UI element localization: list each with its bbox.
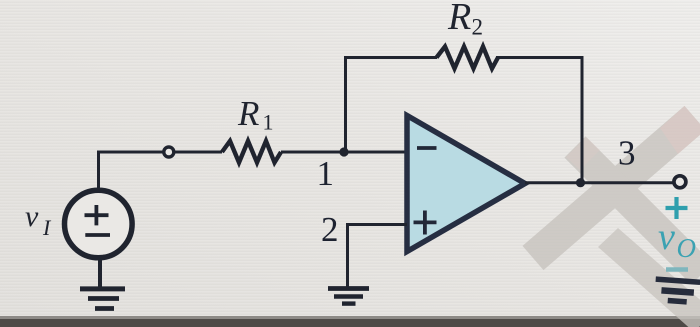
input terminal (open circle) xyxy=(164,147,174,157)
ground at source xyxy=(80,289,125,309)
wire node 1 up to feedback xyxy=(346,58,438,153)
node 1 junction dot xyxy=(339,147,348,156)
svg-text:I: I xyxy=(42,215,52,240)
wire noninverting input xyxy=(348,225,408,288)
label R1 xyxy=(237,94,274,135)
svg-text:2: 2 xyxy=(472,15,484,40)
decorative photo artifacts drawn first (unlabeled) xyxy=(0,316,700,320)
svg-text:v: v xyxy=(658,216,675,258)
svg-text:R: R xyxy=(447,0,471,38)
ground at op-amp input xyxy=(328,289,369,304)
output junction dot xyxy=(576,178,585,187)
wire R1 to node 1 xyxy=(281,151,407,154)
wire source bottom to ground xyxy=(98,258,102,288)
svg-text:3: 3 xyxy=(618,134,636,173)
label R2 xyxy=(447,0,483,40)
resistor R2 xyxy=(437,47,499,69)
wire terminal to R1 xyxy=(175,151,223,154)
label vO xyxy=(658,216,696,263)
label + for vO xyxy=(666,197,688,219)
wire from source top to input terminal xyxy=(99,152,165,191)
wire R2 down to output node xyxy=(496,58,582,183)
label v_I xyxy=(25,200,52,240)
svg-text:O: O xyxy=(677,233,697,263)
op-amp U1 xyxy=(407,116,525,252)
resistor R1 xyxy=(222,141,281,163)
voltage source v_I xyxy=(65,190,133,258)
svg-text:1: 1 xyxy=(317,154,335,193)
label minus for vO xyxy=(666,267,688,271)
svg-text:1: 1 xyxy=(263,110,274,135)
ground at output xyxy=(654,279,700,303)
svg-text:v: v xyxy=(25,200,39,233)
svg-text:R: R xyxy=(237,94,259,133)
output terminal (open circle) xyxy=(674,176,686,188)
wire op-amp output xyxy=(525,181,673,184)
svg-text:2: 2 xyxy=(321,210,339,249)
